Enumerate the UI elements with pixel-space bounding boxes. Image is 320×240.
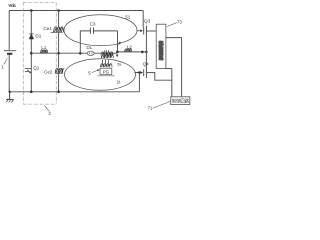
lamp T2 envelope [65,59,136,91]
wire to control left [171,69,173,97]
wire left rail upper [8,11,10,51]
svg-text:L2: L2 [127,45,133,50]
wire Ce column middle [58,32,60,53]
box ignition circuit [156,24,166,68]
svg-text:71: 71 [148,105,153,110]
svg-text:DL: DL [86,45,92,50]
node Q4 source [138,71,141,74]
wire C3 column [79,31,81,54]
node bottom bus / leg1 [30,91,33,94]
inductor L1 [41,50,48,53]
leader 1 [4,58,8,64]
transistor Q3 [137,26,147,37]
transistor Q4 [135,68,147,78]
node half-bridge mid / bus [145,51,147,53]
svg-text:1: 1 [1,65,4,70]
node top bus / leg1 [30,9,33,12]
wire leg1 vertical [30,11,32,92]
transformer winding block [101,50,113,58]
wire Ce column upper [58,11,60,28]
svg-text:D1: D1 [35,34,41,39]
svg-text:制御回路: 制御回路 [172,98,190,105]
svg-text:51: 51 [125,14,131,19]
enclosure dash-dot module [23,3,56,105]
wire lamp1 tap vertical [117,31,119,52]
transistor Q1 [25,69,31,74]
leader 5 arrow [92,70,99,73]
wire Q3 out [146,30,156,32]
ground [6,92,14,103]
svg-text:1t: 1t [117,80,122,85]
wire ignition to control right [166,38,182,97]
filament coil lamp2 box PG [98,60,115,76]
svg-text:2: 2 [48,111,51,116]
wire Q4 out [146,73,171,81]
wire mid bus left [31,52,117,54]
node mid bus / lamp tap [116,51,119,54]
svg-text:路: 路 [159,54,164,61]
node mid bus / leg1 [30,52,33,55]
svg-text:Ce2: Ce2 [44,69,53,74]
wire Ce column to bottom bus [58,73,60,91]
lamp T1 envelope [64,15,137,46]
box PG [100,68,112,74]
diode D1 [29,34,34,39]
node left rail / bottom bus [9,91,11,93]
svg-text:Ce1: Ce1 [43,26,52,31]
node top bus / Ce column [57,9,60,12]
wire left rail lower [8,55,10,92]
capacitor Ce2 winding [55,68,64,73]
capacitor C3 [90,28,93,34]
wire C3 horizontal [80,30,117,32]
wire Q4 down to bottom bus [138,73,140,92]
arrow below lamp tap [116,54,119,57]
wire Q3 drain from top bus [142,11,144,28]
inductor L2 [125,49,132,52]
wire bottom bus [9,91,139,93]
capacitor Ce1 winding [54,27,64,33]
node mid bus L2 right [141,51,144,54]
svg-text:Q1: Q1 [33,66,40,71]
box control circuit [171,97,190,105]
svg-text:Vdc: Vdc [8,3,16,8]
leader 71 [153,101,171,108]
wire mid bus right [117,51,147,53]
node mid bus / C3 column [79,52,82,55]
leader 2 [44,105,49,111]
svg-text:L1: L1 [41,45,47,50]
svg-text:Q3: Q3 [144,18,151,23]
leader 73 [167,23,177,27]
svg-text:73: 73 [177,19,182,24]
lamp DL envelope [87,51,94,55]
lamp T1 filament coil [51,31,54,33]
battery B1 long plate [4,50,16,52]
svg-text:5: 5 [88,70,91,75]
svg-text:C3: C3 [90,22,96,27]
battery B1 short plate [7,53,12,55]
svg-text:PG: PG [103,69,110,74]
wire top bus [9,10,143,12]
node mid bus / Ce column [57,52,60,55]
wire half-bridge mid [145,37,147,68]
wire ignition box bottom stub [166,68,172,70]
svg-text:5a: 5a [117,62,121,66]
node bottom bus / Ce column [57,91,60,94]
svg-text:Q4: Q4 [143,61,150,66]
arrow on lamp1 arc [118,42,121,46]
wire Ce column lower [58,53,60,68]
